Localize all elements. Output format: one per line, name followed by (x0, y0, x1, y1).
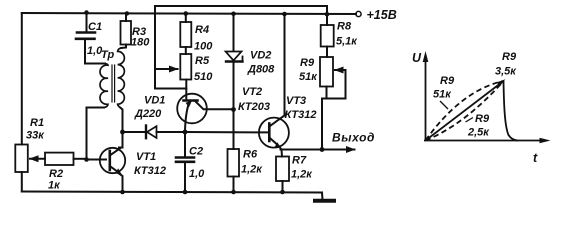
node VT3 collector rail (282, 12, 287, 17)
transformer Tr right winding (118, 48, 125, 108)
graph axis U (412, 51, 551, 165)
terminal +15V (356, 11, 361, 16)
label C2 value 1,0 (189, 168, 205, 180)
svg-text:U: U (412, 51, 422, 65)
wire VT3 emitter to R7 and output (280, 147, 283, 157)
label R6 (243, 149, 258, 161)
node VT1 base (84, 157, 89, 162)
svg-text:VT3: VT3 (286, 95, 306, 107)
label output (332, 131, 375, 145)
label VD1 type D220 (134, 108, 162, 120)
label R4 (195, 24, 209, 36)
ground (315, 193, 334, 201)
label VT1 type KT312 (134, 165, 166, 177)
transformer Tr left winding (100, 64, 108, 108)
label C1 value 1,0 (87, 45, 103, 57)
resistor R8 (321, 25, 334, 57)
svg-text:+15В: +15В (367, 8, 397, 22)
wire C1 bottom to transformer (85, 39, 105, 64)
zener diode VD2 (226, 14, 243, 110)
label R9 51k (433, 75, 455, 109)
capacitor C1 (76, 33, 95, 39)
label VT1 (136, 151, 156, 163)
wire upper parallel rail (155, 6, 327, 89)
label VT2 (242, 86, 262, 98)
wire bottom rail (22, 192, 322, 193)
svg-text:R8: R8 (337, 21, 352, 33)
node C2 VT2 emitter (183, 130, 188, 135)
node VD2 rail (231, 12, 236, 17)
svg-text:t: t (533, 151, 538, 165)
label R1 value 33k (26, 130, 45, 142)
node R8 top (325, 12, 330, 17)
svg-text:51к: 51к (433, 89, 452, 101)
label R9 2.5k (466, 113, 491, 139)
svg-text:51к: 51к (299, 71, 318, 83)
svg-text:1,2к: 1,2к (291, 169, 313, 181)
wire left frame (21, 13, 23, 145)
label C2 (189, 146, 203, 158)
svg-text:510: 510 (194, 71, 213, 83)
svg-text:R4: R4 (195, 24, 209, 36)
label VT3 (286, 95, 306, 107)
svg-text:100: 100 (194, 41, 213, 53)
node R3 top (125, 11, 129, 15)
wire VT1 collector (119, 132, 123, 148)
node C2 rail (183, 190, 188, 195)
node VT1 collector / VD1 (120, 130, 125, 135)
svg-text:R9: R9 (502, 51, 517, 63)
svg-text:КТ203: КТ203 (238, 101, 270, 113)
label VD2 (250, 50, 271, 62)
label +15V (367, 8, 397, 22)
wire top +15V rail (22, 13, 356, 14)
wire upper rail to R5 bottom node (155, 88, 186, 90)
svg-text:С1: С1 (88, 21, 102, 33)
label R9 (300, 57, 315, 69)
potentiometer R1 (15, 145, 27, 192)
wire base node to VT1 (87, 159, 107, 161)
graph ramp solid R9 3.5k (426, 79, 506, 140)
wire VT3 collector (280, 14, 285, 119)
label VD1 (144, 95, 165, 107)
label Tr (101, 49, 114, 61)
label R9 3.5k (495, 51, 517, 78)
svg-text:Выход: Выход (332, 131, 375, 145)
svg-text:R9: R9 (475, 113, 490, 125)
label C1 (88, 21, 102, 33)
label R9 value 51k (299, 71, 318, 83)
svg-text:2,5к: 2,5к (467, 127, 490, 139)
label VT3 type KT312 (285, 109, 317, 121)
label VD2 type D808 (247, 64, 275, 76)
wire C1 top lead (86, 13, 88, 32)
label R3 value 180 (131, 37, 150, 49)
label R8 value 5,1k (336, 36, 358, 48)
svg-text:1к: 1к (48, 180, 61, 192)
transformer core (112, 65, 115, 102)
label R2 (49, 168, 63, 180)
resistor R3 (121, 13, 132, 48)
label t (533, 151, 538, 165)
potentiometer R9 (320, 57, 333, 99)
node C1 top (84, 10, 89, 15)
label R1 (30, 117, 44, 129)
graph falling edge (504, 81, 519, 141)
svg-text:КТ312: КТ312 (134, 165, 166, 177)
node output R9 (320, 147, 325, 152)
svg-text:Д220: Д220 (134, 108, 162, 120)
node R6 rail (231, 190, 236, 195)
svg-text:1,2к: 1,2к (241, 164, 263, 176)
label R3 (132, 26, 146, 38)
svg-text:VT1: VT1 (136, 151, 156, 163)
wire R9 wiper loop (322, 70, 346, 150)
transistor VT1 (100, 148, 125, 175)
svg-text:R9: R9 (300, 57, 315, 69)
svg-text:Тр: Тр (101, 49, 114, 61)
graph axis t (424, 138, 551, 144)
svg-text:R2: R2 (49, 168, 63, 180)
label R7 value 1,2k (291, 169, 313, 181)
label R5 value 510 (194, 71, 213, 83)
svg-text:R5: R5 (195, 55, 210, 67)
svg-text:КТ312: КТ312 (285, 109, 317, 121)
svg-text:R6: R6 (243, 149, 258, 161)
svg-text:R9: R9 (440, 75, 455, 87)
svg-text:3,5к: 3,5к (495, 66, 517, 78)
capacitor C2 (176, 132, 194, 192)
resistor R6 (228, 110, 240, 192)
label R2 value 1k (48, 180, 61, 192)
label VT2 type KT203 (238, 101, 270, 113)
diode VD1 (146, 126, 185, 139)
resistor R7 (276, 157, 289, 192)
label U (412, 51, 422, 65)
label R8 (337, 21, 352, 33)
node R4 top (184, 11, 189, 16)
svg-text:33к: 33к (26, 130, 45, 142)
node VT2 collector R6 (231, 107, 236, 112)
graph ramp dashed R9 2.5k (426, 81, 504, 141)
label R7 (292, 155, 307, 167)
node VT1 emitter rail (120, 190, 125, 195)
wire right winding bottom to collector node (121, 108, 123, 132)
svg-text:VT2: VT2 (242, 86, 262, 98)
svg-text:Д808: Д808 (247, 64, 275, 76)
wire VT1 emitter (119, 174, 123, 192)
label R6 value 1,2k (241, 164, 263, 176)
wire output line (281, 149, 331, 151)
svg-text:1,0: 1,0 (189, 168, 205, 180)
svg-text:С2: С2 (189, 146, 203, 158)
label R4 value 100 (194, 41, 213, 53)
wire left winding bottom to base node (87, 108, 105, 160)
output arrow (330, 149, 355, 151)
wire R5 wiper tap (155, 68, 178, 70)
wire VD1 node to VT3 base (185, 131, 268, 133)
svg-text:R7: R7 (292, 155, 307, 167)
graph ramp dashed R9 51k (426, 81, 504, 141)
node R7 rail (280, 190, 285, 195)
svg-text:VD2: VD2 (250, 50, 271, 62)
transistor VT3 (259, 118, 289, 148)
label R5 (195, 55, 210, 67)
resistor R4 (180, 14, 191, 55)
svg-text:R1: R1 (30, 117, 44, 129)
svg-text:180: 180 (131, 37, 150, 49)
resistor R2 (30, 153, 87, 165)
transistor VT2 (177, 94, 233, 131)
resistor R5 (180, 54, 191, 100)
svg-text:VD1: VD1 (144, 95, 165, 107)
wire collector node to VD1 (123, 131, 146, 133)
svg-text:5,1к: 5,1к (336, 36, 358, 48)
